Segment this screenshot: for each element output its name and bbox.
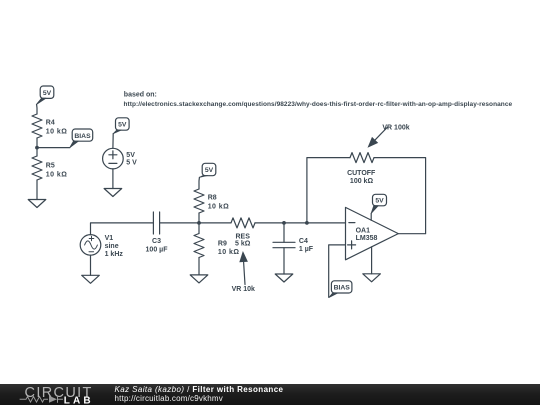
svg-text:http://electronics.stackexchan: http://electronics.stackexchange.com/que… [124, 101, 513, 108]
wire [112, 169, 114, 189]
svg-text:100 kΩ: 100 kΩ [350, 178, 374, 185]
svg-text:5V: 5V [43, 90, 52, 97]
resistor R5 [32, 148, 67, 200]
svg-text:1 µF: 1 µF [299, 246, 314, 253]
wire [36, 105, 38, 115]
wire (V- lead) [371, 247, 373, 274]
ground (under op-amp) [363, 274, 381, 282]
annotation arrow VR 10k [232, 251, 255, 293]
flag 5V (above R8) [199, 163, 215, 177]
voltage source V2 5V [103, 148, 138, 169]
wire (+ input to BIAS) [329, 245, 346, 297]
svg-text:5 V: 5 V [126, 160, 137, 167]
flag BIAS (op-amp) [329, 281, 352, 298]
wire [37, 147, 70, 149]
svg-text:CUTOFF: CUTOFF [347, 170, 376, 177]
ground (under R5) [28, 200, 46, 208]
flag 5V (top-left) [36, 86, 54, 105]
flag 5V (above V2) [113, 118, 129, 134]
svg-text:R4: R4 [46, 119, 55, 126]
capacitor C3 [146, 212, 169, 253]
ground (under R9) [190, 275, 208, 283]
resistor CUTOFF (horizontal feedback) [347, 153, 376, 185]
svg-text:100 µF: 100 µF [146, 246, 169, 253]
ground (under V2) [104, 189, 122, 197]
node junction feedback [305, 221, 309, 225]
svg-text:BIAS: BIAS [334, 285, 351, 292]
wire [91, 223, 154, 235]
node junction R4/R5/BIAS [35, 146, 39, 150]
svg-text:RES: RES [235, 233, 250, 240]
flag 5V (op-amp V+) [371, 194, 386, 213]
resistor R8 [194, 189, 229, 223]
resistor RES (horizontal) [231, 218, 255, 248]
svg-text:10 kΩ: 10 kΩ [46, 128, 68, 135]
footer bar [0, 384, 540, 405]
flag BIAS (left) [70, 129, 93, 148]
resistor R4 [32, 114, 67, 148]
svg-text:R5: R5 [46, 162, 55, 169]
node junction C4 [282, 221, 286, 225]
svg-text:R8: R8 [208, 194, 217, 201]
svg-text:5V: 5V [126, 152, 135, 159]
wire [255, 222, 346, 224]
svg-text:VR 10k: VR 10k [232, 286, 255, 293]
svg-text:R9: R9 [218, 241, 227, 248]
node junction rail/R8/R9 [197, 221, 201, 225]
wire [112, 134, 114, 149]
svg-text:VR 100k: VR 100k [382, 125, 409, 132]
svg-text:10 kΩ: 10 kΩ [218, 249, 240, 256]
svg-text:5V: 5V [118, 122, 127, 129]
svg-text:based on:: based on: [124, 92, 157, 99]
svg-text:5V: 5V [205, 167, 214, 174]
wire [160, 222, 231, 224]
resistor R9 [194, 223, 239, 275]
op-amp OA1 [346, 207, 399, 259]
svg-text:V1: V1 [105, 235, 114, 242]
wire [90, 255, 92, 275]
svg-text:C3: C3 [152, 238, 161, 245]
ground (under C4) [275, 274, 293, 282]
ground (under V1) [82, 275, 100, 283]
wire (feedback riser left) [307, 158, 350, 223]
svg-text:5V: 5V [375, 198, 384, 205]
wire (feedback top right) [374, 158, 426, 234]
svg-text:10 kΩ: 10 kΩ [208, 203, 230, 210]
svg-text:sine: sine [105, 243, 119, 250]
svg-text:1 kHz: 1 kHz [105, 251, 124, 258]
svg-text:10 kΩ: 10 kΩ [46, 171, 68, 178]
voltage source V1 sine [80, 235, 123, 258]
svg-text:5 kΩ: 5 kΩ [235, 241, 251, 248]
svg-text:LAB: LAB [64, 395, 94, 405]
svg-text:LM358: LM358 [356, 235, 378, 242]
svg-text:C4: C4 [299, 238, 308, 245]
svg-text:BIAS: BIAS [74, 133, 91, 140]
svg-text:OA1: OA1 [356, 227, 371, 234]
wire (V+ lead) [370, 213, 372, 220]
capacitor C4 [273, 223, 314, 274]
wire [198, 177, 200, 189]
annotation arrow VR 100k [368, 125, 410, 148]
